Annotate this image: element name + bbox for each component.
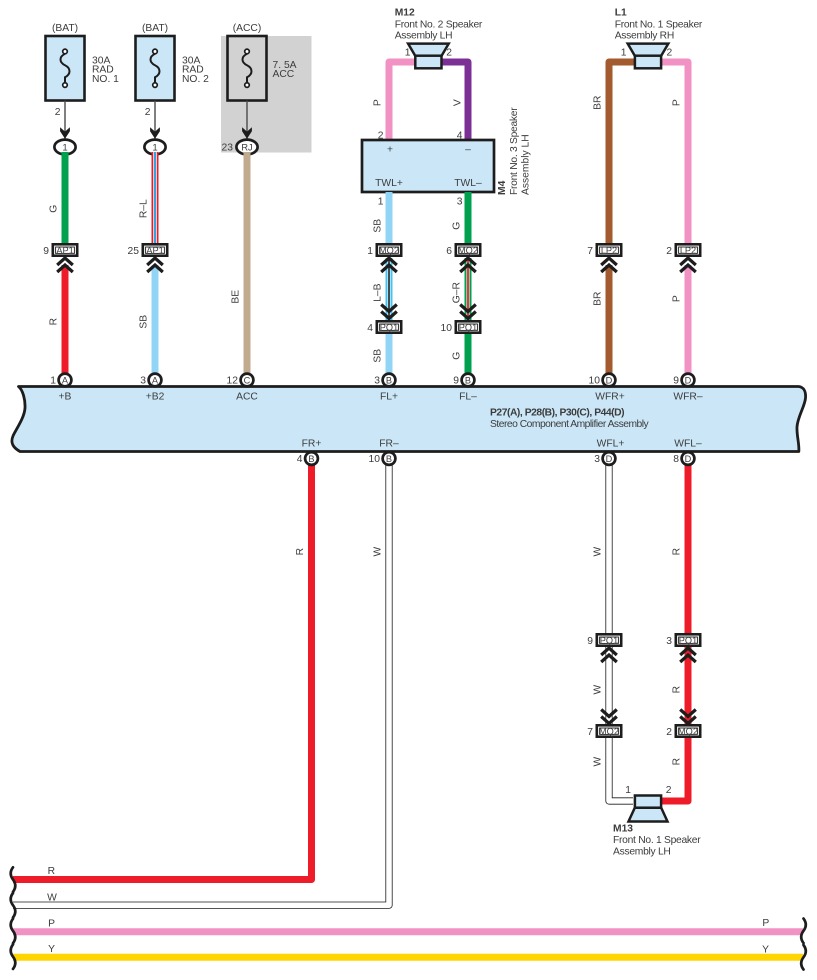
svg-text:(BAT): (BAT) [52, 23, 78, 34]
svg-text:Assembly LH: Assembly LH [613, 847, 671, 858]
connector 9 AP1 [43, 244, 77, 256]
svg-text:P27(A), P28(B), P30(C), P44(D): P27(A), P28(B), P30(C), P44(D) [490, 408, 624, 419]
wire P (M12 pin1 to M4 pin2) [389, 62, 416, 142]
wire SB (M4 pin1 to MQ2) [386, 192, 393, 244]
svg-text:TWL+: TWL+ [375, 178, 403, 189]
break mark P left [11, 919, 16, 944]
svg-text:B: B [386, 375, 392, 385]
svg-text:MQ2: MQ2 [379, 246, 399, 256]
svg-text:R: R [672, 686, 683, 693]
label SB (FL+) [373, 349, 384, 363]
wire SB (PQ1 to amplifier FL+) [386, 334, 393, 375]
svg-text:25: 25 [128, 246, 140, 257]
label R (FR+) [295, 548, 306, 555]
chevron up below 7 LP2 [601, 258, 617, 272]
chevron up below 6 MQ2 [460, 258, 476, 272]
connector 9 PQ1 [587, 634, 621, 647]
wire R (AP1 to amplifier +B) [62, 265, 69, 375]
M4 pin labels above [378, 131, 463, 142]
terminal 23 RJ [222, 140, 258, 155]
svg-text:AP1: AP1 [56, 246, 73, 256]
svg-text:W: W [593, 547, 604, 557]
chevron up at 25 AP1 [147, 258, 163, 272]
amplifier pin 8 D (WFL-) [673, 452, 694, 465]
break mark P right [801, 919, 806, 944]
svg-text:L1: L1 [615, 8, 627, 19]
label W (MQ2 to M13) [593, 757, 604, 767]
svg-text:3: 3 [594, 454, 600, 465]
svg-text:23: 23 [222, 143, 234, 154]
fuse 2 pin 2 label [145, 107, 151, 118]
svg-text:BR: BR [593, 96, 604, 110]
label (BAT) fuse 2 [142, 23, 168, 34]
svg-text:M13: M13 [613, 824, 633, 835]
svg-text:1: 1 [378, 197, 384, 208]
connector 2 LP2 [666, 244, 700, 256]
amplifier pin 3 B (FL+) [374, 374, 395, 387]
chevron up below 2 LP2 [680, 258, 696, 272]
svg-text:Front No. 1 Speaker: Front No. 1 Speaker [613, 835, 701, 846]
label W (PQ1-MQ2) [593, 685, 604, 695]
svg-text:W: W [593, 685, 604, 695]
svg-text:A: A [62, 375, 69, 385]
svg-text:W: W [47, 893, 57, 904]
label Y (bottom left) [48, 944, 55, 955]
svg-text:3: 3 [457, 197, 463, 208]
chevron up below 1 MQ2 [381, 258, 397, 272]
svg-text:4: 4 [367, 323, 373, 334]
svg-text:M4: M4 [497, 180, 508, 195]
svg-text:1: 1 [367, 246, 373, 257]
Stereo Component Amplifier Assembly band [12, 387, 806, 452]
svg-text:R: R [48, 866, 55, 877]
svg-text:9: 9 [43, 246, 49, 257]
label P (bottom right) [762, 918, 769, 929]
label M12 Front No. 2 Speaker Assembly LH [395, 8, 483, 42]
label W (WFL+) [593, 547, 604, 557]
svg-text:D: D [606, 454, 613, 464]
svg-text:AP1: AP1 [146, 246, 163, 256]
break mark Y right [801, 945, 806, 970]
svg-text:ACC: ACC [236, 392, 258, 403]
wire BE (RJ to amplifier ACC) [244, 152, 251, 375]
svg-text:WFL–: WFL– [674, 439, 702, 450]
speaker M13 symbol [629, 796, 668, 822]
svg-text:+B2: +B2 [146, 392, 165, 403]
amplifier pin 9 B (FL-) [453, 374, 474, 387]
junction terminal 1 (fuse 2) [144, 140, 165, 155]
svg-text:D: D [606, 375, 613, 385]
svg-text:2: 2 [666, 727, 672, 738]
svg-text:SB: SB [139, 315, 150, 329]
svg-text:W: W [373, 547, 384, 557]
svg-text:P: P [373, 99, 384, 106]
amplifier pin 12 C (ACC) [227, 374, 254, 387]
label V (M12) [453, 99, 464, 106]
svg-text:12: 12 [227, 376, 239, 387]
chevron down above 7 MQ2 [601, 710, 617, 724]
label P (bottom left) [48, 918, 55, 929]
fuse 2 lead wire and arrow [150, 101, 160, 140]
svg-text:BR: BR [593, 292, 604, 306]
wire BR (L1 pin1 to LP2) [609, 62, 636, 244]
fuse 3 lead wire and arrow [242, 101, 252, 140]
label BE [231, 290, 242, 304]
svg-text:1: 1 [50, 376, 56, 387]
svg-text:B: B [308, 454, 314, 464]
chevron down above 4 PQ1 [381, 305, 397, 319]
svg-text:FR–: FR– [379, 439, 399, 450]
wire G-R (MQ2 to PQ1) [465, 258, 472, 321]
band title [490, 408, 650, 430]
amplifier pin 3 D (WFL+) [594, 452, 615, 465]
svg-text:2: 2 [145, 107, 151, 118]
svg-text:WFL+: WFL+ [597, 439, 625, 450]
label BR (L1) [593, 96, 604, 110]
svg-text:Y: Y [762, 944, 769, 955]
label (BAT) fuse 1 [52, 23, 78, 34]
svg-text:2: 2 [446, 48, 452, 59]
svg-text:2: 2 [55, 107, 61, 118]
label R [49, 318, 60, 325]
wire W (amplifier FR- to break) [13, 463, 389, 905]
svg-text:9: 9 [587, 636, 593, 647]
svg-text:3: 3 [666, 636, 672, 647]
svg-text:1: 1 [621, 48, 627, 59]
chevron up below 9 PQ1 [601, 648, 617, 662]
svg-text:+B: +B [59, 392, 72, 403]
chevron up at 9 AP1 [57, 258, 73, 272]
svg-text:G: G [49, 205, 60, 213]
speaker M12 symbol [408, 44, 449, 69]
connector 1 MQ2 [367, 244, 401, 256]
wire R-L (fuse 2 to AP1) [152, 152, 159, 244]
svg-text:V: V [453, 99, 464, 106]
svg-text:ACC: ACC [273, 69, 295, 80]
label L-B [373, 283, 384, 301]
connector 10 PQ1 [441, 321, 481, 334]
svg-text:L–B: L–B [373, 283, 384, 301]
svg-text:R: R [672, 548, 683, 555]
label M13 Front No. 1 Speaker Assembly LH [613, 824, 701, 858]
fuse 30A RAD NO. 1 [46, 36, 120, 101]
svg-text:LP2: LP2 [680, 246, 696, 256]
label SB (M4) [373, 219, 384, 233]
wire R (amplifier FR+ to break) [13, 463, 312, 880]
wire R (amplifier WFL- to M13) [662, 463, 688, 801]
amplifier pin 4 B (FR+) [297, 452, 318, 465]
label P (M12) [373, 99, 384, 106]
svg-text:1: 1 [152, 143, 157, 154]
label BR (WFR+) [593, 292, 604, 306]
wire P (LP2 to amplifier WFR-) [685, 265, 692, 375]
svg-text:MQ2: MQ2 [458, 246, 478, 256]
svg-text:MQ2: MQ2 [678, 727, 698, 737]
wire V (M12 pin2 to M4 pin4) [442, 62, 469, 142]
svg-text:P: P [48, 918, 55, 929]
label P (WFR-) [672, 295, 683, 302]
svg-text:FL+: FL+ [380, 392, 398, 403]
svg-text:P: P [672, 295, 683, 302]
svg-text:A: A [152, 375, 159, 385]
svg-text:4: 4 [297, 454, 303, 465]
svg-text:Front No. 3 Speaker: Front No. 3 Speaker [509, 107, 520, 195]
svg-text:MQ2: MQ2 [599, 727, 619, 737]
label R (bottom left) [48, 866, 55, 877]
svg-text:Y: Y [48, 944, 55, 955]
wire W (amplifier WFL+ to M13) [609, 463, 633, 801]
svg-text:Assembly RH: Assembly RH [615, 31, 674, 42]
svg-text:FR+: FR+ [302, 439, 322, 450]
amplifier pin 10 B (FR-) [369, 452, 396, 465]
chevron up below 3 PQ1 [680, 648, 696, 662]
svg-text:10: 10 [369, 454, 381, 465]
label W (bottom left) [47, 893, 57, 904]
svg-text:R–L: R–L [139, 199, 150, 218]
connector 25 AP1 [128, 244, 168, 256]
svg-text:WFR–: WFR– [673, 392, 702, 403]
svg-text:R: R [295, 548, 306, 555]
label R (MQ2 to M13) [672, 758, 683, 765]
label G [49, 205, 60, 213]
svg-text:2: 2 [666, 785, 672, 796]
junction terminal 1 (fuse 1) [54, 140, 75, 155]
svg-text:1: 1 [625, 785, 631, 796]
svg-text:D: D [685, 454, 692, 464]
svg-text:(BAT): (BAT) [142, 23, 168, 34]
svg-text:(ACC): (ACC) [233, 23, 262, 34]
svg-text:PQ1: PQ1 [459, 323, 477, 333]
wire SB (AP1 to amplifier +B2) [152, 265, 159, 375]
fuse 1 pin 2 label [55, 107, 61, 118]
svg-text:G–R: G–R [452, 282, 463, 303]
svg-text:R: R [672, 758, 683, 765]
band top pin names [59, 392, 703, 403]
chevron down above 2 MQ2 [680, 710, 696, 724]
M12 pin labels [405, 48, 452, 59]
svg-text:Assembly LH: Assembly LH [395, 31, 453, 42]
svg-text:PQ1: PQ1 [600, 636, 618, 646]
svg-text:B: B [386, 454, 392, 464]
M13 pin labels [625, 785, 672, 796]
amplifier pin 10 D (WFR+) [589, 374, 616, 387]
connector 2 MQ2 [666, 725, 700, 738]
svg-text:Front No. 2 Speaker: Front No. 2 Speaker [395, 20, 483, 31]
break mark W left [11, 893, 16, 918]
svg-text:+: + [387, 145, 393, 156]
svg-text:10: 10 [589, 376, 601, 387]
svg-text:R: R [49, 318, 60, 325]
svg-text:W: W [593, 757, 604, 767]
svg-text:D: D [685, 375, 692, 385]
svg-text:SB: SB [373, 349, 384, 363]
label SB [139, 315, 150, 329]
label G (FL-) [452, 352, 463, 360]
label M4 Front No. 3 Speaker Assembly LH (rotated) [497, 107, 532, 195]
amplifier pin 9 D (WFR-) [673, 374, 694, 387]
svg-text:B: B [465, 375, 471, 385]
wire Y (bottom bus) [13, 954, 803, 961]
amplifier pin 3 A (+B2) [140, 374, 161, 387]
svg-text:C: C [244, 375, 251, 385]
label R-L [139, 199, 150, 218]
svg-text:9: 9 [453, 376, 459, 387]
svg-text:P: P [672, 99, 683, 106]
connector 7 LP2 [587, 244, 621, 256]
svg-text:2: 2 [666, 246, 672, 257]
tweeter M4 box [362, 140, 494, 192]
svg-text:1: 1 [62, 143, 67, 154]
connector 3 PQ1 [666, 634, 700, 647]
svg-text:PQ1: PQ1 [380, 323, 398, 333]
svg-text:8: 8 [673, 454, 679, 465]
svg-text:Assembly LH: Assembly LH [521, 134, 532, 195]
svg-text:NO. 2: NO. 2 [182, 74, 209, 85]
break mark Y left [11, 944, 16, 969]
connector 4 PQ1 [367, 321, 401, 334]
chevron down above 10 PQ1 [460, 305, 476, 319]
svg-text:G: G [452, 222, 463, 230]
speaker L1 symbol [628, 44, 669, 69]
wire G (M4 pin3 to MQ2) [465, 192, 472, 244]
svg-text:FL–: FL– [459, 392, 477, 403]
wire BR (LP2 to amplifier WFR+) [606, 265, 613, 375]
L1 pin labels [621, 48, 673, 59]
wire G (fuse 1 to AP1) [62, 152, 69, 244]
svg-text:7: 7 [587, 246, 593, 257]
connector 6 MQ2 [446, 244, 480, 256]
wire P (L1 pin2 to LP2) [661, 62, 689, 244]
svg-text:6: 6 [446, 246, 452, 257]
svg-text:10: 10 [441, 323, 453, 334]
svg-text:9: 9 [673, 376, 679, 387]
label (ACC) [233, 23, 262, 34]
fuse 7.5A ACC [228, 36, 297, 101]
wire L-B (MQ2 to PQ1) [386, 258, 393, 321]
wire G (PQ1 to amplifier FL-) [465, 334, 472, 375]
label Y (bottom right) [762, 944, 769, 955]
svg-text:WFR+: WFR+ [595, 392, 624, 403]
svg-text:Front No. 1 Speaker: Front No. 1 Speaker [615, 20, 703, 31]
label P (L1) [672, 99, 683, 106]
svg-text:P: P [762, 918, 769, 929]
svg-text:3: 3 [140, 376, 146, 387]
label R (PQ1-MQ2) [672, 686, 683, 693]
svg-text:LP2: LP2 [601, 246, 617, 256]
svg-text:3: 3 [374, 376, 380, 387]
gray junction block area [221, 36, 312, 153]
fuse 1 lead wire and arrow [60, 101, 70, 140]
svg-text:7: 7 [587, 727, 593, 738]
svg-text:NO. 1: NO. 1 [92, 74, 119, 85]
svg-text:SB: SB [373, 219, 384, 233]
M4 pin labels below [378, 197, 463, 208]
label W (FR-) [373, 547, 384, 557]
label R (WFL-) [672, 548, 683, 555]
band bottom pin names [302, 439, 702, 450]
svg-text:PQ1: PQ1 [679, 636, 697, 646]
svg-text:2: 2 [667, 48, 673, 59]
amplifier pin 1 A (+B) [50, 374, 71, 387]
label G (M4) [452, 222, 463, 230]
wire P (bottom bus) [13, 928, 803, 935]
svg-text:G: G [452, 352, 463, 360]
connector 7 MQ2 [587, 725, 621, 738]
fuse 30A RAD NO. 2 [136, 36, 210, 101]
svg-text:M12: M12 [395, 8, 415, 19]
svg-text:1: 1 [405, 48, 411, 59]
label G-R [452, 282, 463, 303]
label L1 Front No. 1 Speaker Assembly RH [615, 8, 703, 42]
svg-text:BE: BE [231, 290, 242, 304]
break mark R left [11, 867, 16, 892]
svg-text:–: – [465, 145, 471, 156]
svg-text:Stereo Component Amplifier Ass: Stereo Component Amplifier Assembly [490, 419, 650, 430]
svg-text:TWL–: TWL– [454, 178, 482, 189]
svg-text:RJ: RJ [241, 143, 252, 153]
